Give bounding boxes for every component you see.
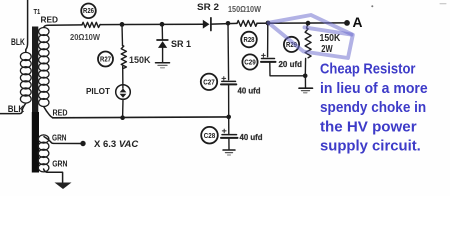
wire: junction to ground xyxy=(304,76,306,88)
svg-text:the HV power: the HV power xyxy=(320,118,417,135)
wire: C29 to ground junction xyxy=(270,62,305,76)
wire: junction to R27 xyxy=(121,24,124,45)
transformer T1 primary winding xyxy=(20,52,31,103)
transformer T1 6.3V filament winding xyxy=(38,135,49,172)
svg-text:SR 1: SR 1 xyxy=(171,39,191,49)
svg-text:spendy choke in: spendy choke in xyxy=(320,99,426,116)
svg-text:supply circuit.: supply circuit. xyxy=(320,138,421,155)
wire: junction to R29 xyxy=(307,23,308,28)
wire: junction down to C28 xyxy=(228,117,230,135)
capacitor C27 40ufd xyxy=(222,77,226,81)
wire: filament bottom lead GRN xyxy=(44,169,63,182)
svg-text:PILOT: PILOT xyxy=(86,86,111,96)
wire: junction to SR1 xyxy=(161,24,163,39)
designator C29 xyxy=(242,54,257,69)
wire: SR1 to ground xyxy=(162,48,164,62)
node: rectifier output junction xyxy=(226,21,231,26)
svg-text:RED: RED xyxy=(53,109,68,118)
svg-text:150K: 150K xyxy=(320,33,341,44)
svg-text:R27: R27 xyxy=(100,57,111,64)
transformer T1 core xyxy=(32,27,38,117)
wire: R27 to pilot lamp xyxy=(122,66,124,88)
svg-text:T1: T1 xyxy=(34,9,41,16)
svg-text:GRN: GRN xyxy=(52,132,67,142)
ground C29/R29 xyxy=(299,87,313,89)
designator R29 xyxy=(284,37,299,52)
capacitor C29 20ufd xyxy=(262,54,266,58)
svg-text:GRN: GRN xyxy=(52,159,67,169)
resistor R26 20Ω10W zigzag xyxy=(82,22,100,27)
svg-text:20Ω10W: 20Ω10W xyxy=(70,32,101,42)
ground SR1 xyxy=(156,62,170,64)
svg-text:20 ufd: 20 ufd xyxy=(279,59,303,69)
svg-text:in lieu of a more: in lieu of a more xyxy=(320,80,428,97)
transformer T1 HV secondary winding xyxy=(39,28,49,107)
ground: filament winding xyxy=(55,183,72,190)
capacitor C28 40ufd xyxy=(222,129,226,133)
designator R28 xyxy=(241,32,257,48)
svg-text:A: A xyxy=(353,15,363,30)
svg-text:BLK: BLK xyxy=(8,104,25,114)
wire: filament top lead GRN xyxy=(44,137,81,144)
node: top rail / R29 junction xyxy=(306,21,311,26)
node: C29/R29 ground junction xyxy=(303,74,308,79)
node: top rail / C29 junction xyxy=(266,21,271,26)
designator C27 xyxy=(201,74,217,90)
pilot lamp xyxy=(116,85,131,100)
svg-text:RED: RED xyxy=(41,15,59,24)
resistor 150Ω10W R28 zigzag xyxy=(237,21,257,27)
wire: HV secondary top lead RED xyxy=(44,25,48,27)
wire: primary bottom lead BLK xyxy=(0,103,26,113)
svg-text:40 ufd: 40 ufd xyxy=(238,85,261,95)
speck far right xyxy=(440,3,446,5)
wire: C28 to ground xyxy=(228,138,230,150)
wire: junction down to C29 xyxy=(267,23,269,57)
terminal A xyxy=(344,20,350,26)
designator R27 xyxy=(98,52,113,67)
wire: primary top lead BLK xyxy=(26,0,28,52)
node: C27/C28 junction on RED return xyxy=(226,115,231,120)
designator R26 xyxy=(81,4,96,19)
svg-text:SR 2: SR 2 xyxy=(197,2,219,12)
node: top rail / SR1 junction xyxy=(160,22,165,27)
wire: RED return line xyxy=(53,116,229,119)
svg-text:C28: C28 xyxy=(204,133,216,140)
wire: HV secondary bottom lead RED xyxy=(44,107,53,118)
wire: pilot lamp to RED return xyxy=(122,99,124,117)
node: pilot / RED return junction xyxy=(120,115,125,120)
diode SR2 xyxy=(203,20,210,29)
wire: junction down to C27 xyxy=(227,23,230,80)
svg-text:C29: C29 xyxy=(244,60,256,67)
node: X 6.3VAC terminal xyxy=(80,141,85,146)
svg-text:R26: R26 xyxy=(83,8,94,15)
svg-text:40 ufd: 40 ufd xyxy=(240,132,263,142)
wire: R29 to ground junction xyxy=(304,59,306,76)
svg-text:150Ω10W: 150Ω10W xyxy=(228,5,261,14)
resistor R29 150K 2W zigzag xyxy=(305,28,311,58)
node: top rail / R27 junction xyxy=(120,22,125,27)
resistor R27 150K zigzag xyxy=(121,46,126,69)
svg-text:BLK: BLK xyxy=(11,37,25,47)
speck top right xyxy=(371,5,373,7)
blue annotation arrow xyxy=(269,15,353,58)
svg-text:Cheap Resistor: Cheap Resistor xyxy=(320,61,416,78)
diode SR1 xyxy=(157,39,168,41)
svg-text:150K: 150K xyxy=(129,55,151,65)
ground C28 xyxy=(223,149,235,151)
wire: B+ top rail xyxy=(48,23,345,25)
designator C28 xyxy=(201,127,218,144)
wire: C27 to RED return junction xyxy=(228,84,230,117)
svg-text:R28: R28 xyxy=(244,37,255,44)
svg-text:C27: C27 xyxy=(203,79,215,86)
svg-text:X 6.3 VAC: X 6.3 VAC xyxy=(94,139,138,149)
